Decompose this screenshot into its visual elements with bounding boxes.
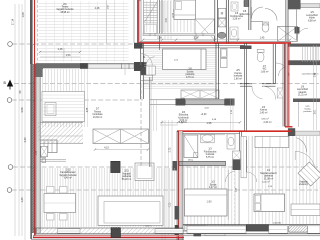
door arc 1/8 bbox=[252, 7, 264, 19]
svg-text:31,08 m²: 31,08 m² bbox=[264, 177, 274, 180]
hall wall 1/1 west bbox=[246, 140, 248, 172]
red boundary line top vertical bbox=[137, 0, 139, 44]
window gap southwest 2 bbox=[155, 229, 183, 234]
svg-text:fagyálló burkolat: fagyálló burkolat bbox=[60, 174, 77, 177]
south band room 1/2 bbox=[183, 225, 246, 230]
red boundary line west upper bbox=[34, 0, 36, 70]
southwest hatched band bbox=[36, 228, 183, 234]
svg-text:Előszoba: Előszoba bbox=[179, 115, 189, 117]
red hatched wall x178 bbox=[176, 131, 178, 240]
windows below band 1/2 bbox=[205, 231, 225, 236]
terrace dim line bbox=[40, 51, 80, 53]
small box with X bbox=[41, 146, 48, 157]
terrace step edge lines bbox=[40, 158, 66, 160]
dimension chain lines left margin bbox=[14, 4, 16, 236]
red elbow y127 bbox=[285, 126, 293, 128]
wall block 1/7 north bbox=[240, 46, 252, 50]
dim chain above red y131 bbox=[160, 121, 240, 123]
svg-text:Kamra: Kamra bbox=[260, 109, 267, 112]
entry wall line right bbox=[296, 10, 298, 41]
dim chain above red bbox=[143, 39, 290, 41]
west wall 2/8 bbox=[140, 43, 142, 99]
axis marker circle node 2 bbox=[7, 98, 12, 103]
svg-text:3,46: 3,46 bbox=[315, 72, 317, 77]
wall pillar mid bbox=[80, 63, 88, 69]
fridge bbox=[221, 49, 228, 58]
terrace faint lines right bbox=[106, 0, 108, 44]
corridor wall y84 bbox=[240, 83, 252, 85]
dim line 4,10 bbox=[95, 149, 148, 151]
sofa bbox=[98, 196, 163, 226]
insulated band below bath bbox=[179, 161, 226, 165]
svg-text:2/13: 2/13 bbox=[66, 170, 71, 172]
dim line pair hall east bbox=[230, 98, 232, 131]
wall 1/6-1/8 bbox=[248, 0, 250, 30]
svg-text:28,95 m²: 28,95 m² bbox=[60, 11, 69, 14]
north-east light band bbox=[301, 4, 320, 8]
chair bottom 1 bbox=[47, 214, 55, 221]
wall 1/7 east bbox=[272, 44, 274, 84]
bed room 2/8 bbox=[163, 49, 207, 70]
party wall lines top bbox=[133, 0, 135, 43]
axis marker circle node 1 bbox=[8, 42, 13, 47]
svg-text:4,28: 4,28 bbox=[95, 7, 100, 10]
svg-text:2,48: 2,48 bbox=[58, 48, 63, 51]
section marker B triangle bbox=[7, 80, 13, 87]
staircase treads bbox=[144, 2, 158, 4]
svg-text:Nappali: Nappali bbox=[300, 182, 308, 184]
pillar left of closet bbox=[176, 99, 186, 106]
wall 1/5-1/6 bbox=[225, 0, 227, 44]
steps outline bbox=[41, 140, 58, 153]
corner pillar at stair bbox=[134, 43, 143, 49]
toilet 1/3 bbox=[227, 134, 235, 149]
svg-text:2,98: 2,98 bbox=[207, 122, 212, 125]
wall edge below red bbox=[140, 44, 245, 46]
svg-text:31,31 m²: 31,31 m² bbox=[298, 94, 307, 97]
svg-text:1,45: 1,45 bbox=[260, 37, 265, 40]
bed room 2/10 bbox=[174, 0, 196, 20]
stairwell mid dark band bbox=[293, 99, 320, 103]
shaft with X corridor bbox=[277, 88, 283, 98]
svg-text:parketta: parketta bbox=[304, 110, 313, 113]
window sill southeast 1 bbox=[187, 226, 246, 233]
svg-text:1,60 m: 1,60 m bbox=[145, 226, 152, 228]
window marks on band bbox=[121, 64, 123, 70]
south wall edge lines bbox=[31, 238, 184, 240]
cabinet bbox=[221, 59, 228, 68]
room 2/8 parquet bbox=[144, 49, 216, 90]
stairwell treads right bbox=[302, 47, 304, 62]
svg-text:1,66 m²: 1,66 m² bbox=[261, 70, 269, 73]
east wall 2/8 bbox=[215, 43, 217, 99]
hatched block southeast bbox=[289, 226, 308, 232]
west wall brick band bbox=[30, 64, 32, 239]
window southeast 2 bbox=[269, 226, 288, 234]
dimension ticks bbox=[33, 43, 35, 45]
svg-text:3,28 m²: 3,28 m² bbox=[232, 18, 240, 21]
axis line y44 dashed bbox=[12, 43, 134, 45]
terrace 2/7 decking bbox=[42, 69, 89, 127]
terrace east edge bbox=[148, 77, 150, 167]
svg-text:2/A: 2/A bbox=[63, 3, 67, 6]
dim strip x160-175 vertical bbox=[161, 120, 163, 240]
svg-text:WC: WC bbox=[263, 69, 267, 71]
lounge rotated bbox=[298, 162, 320, 186]
west wall upper parapet bbox=[30, 0, 33, 64]
bath fixtures bbox=[230, 27, 238, 39]
fireplace kandallo bbox=[111, 161, 120, 172]
wall edge above red bbox=[140, 40, 291, 42]
closet with X bbox=[181, 90, 219, 99]
terrace 2/A decking bbox=[39, 1, 129, 62]
bath east wall bbox=[239, 131, 241, 165]
door arc 1/8 second bbox=[265, 9, 277, 21]
toilet 1/7 bbox=[257, 52, 264, 62]
shower 1/3 bbox=[184, 135, 198, 158]
terrace south steps area bbox=[40, 157, 46, 159]
axis line y190 dashed bbox=[12, 189, 318, 191]
red boundary horizontal y43 bbox=[139, 42, 292, 44]
wall corner block bbox=[36, 64, 44, 77]
sink 1/3 bbox=[201, 134, 214, 143]
axis line y82 dashed bbox=[14, 82, 319, 84]
svg-text:Előszoba: Előszoba bbox=[240, 13, 251, 16]
svg-text:1,08: 1,08 bbox=[21, 12, 25, 18]
svg-text:17,14: 17,14 bbox=[11, 18, 15, 25]
chimney block south bbox=[111, 228, 121, 238]
chair bottom 2 bbox=[60, 214, 68, 221]
pillar right of hall wall bbox=[225, 99, 235, 106]
svg-text:4,10: 4,10 bbox=[104, 147, 109, 150]
door arc mid right bbox=[279, 67, 289, 77]
svg-text:5,75 m²: 5,75 m² bbox=[206, 156, 214, 159]
door arc 1/1 big bbox=[295, 151, 315, 171]
wall pillar right bbox=[134, 62, 147, 71]
wardrobe lines 1/2 east bbox=[227, 170, 229, 220]
svg-text:2,61: 2,61 bbox=[315, 109, 317, 114]
svg-text:szekrény: szekrény bbox=[299, 183, 309, 186]
dryer with X bbox=[218, 18, 226, 27]
svg-text:6,40 m²: 6,40 m² bbox=[262, 181, 270, 184]
door arc stair to terrace bbox=[146, 57, 155, 66]
chair top 1 bbox=[47, 187, 55, 194]
pergola outline bbox=[42, 92, 85, 122]
bed 1/1 bbox=[254, 194, 285, 212]
dim lines strip x164-172 bbox=[164, 0, 166, 40]
svg-text:13,94 m²: 13,94 m² bbox=[93, 116, 103, 119]
stairwell wall line bbox=[298, 102, 300, 127]
dark block on wall 2/8 bbox=[141, 68, 148, 76]
svg-text:2,73: 2,73 bbox=[169, 147, 172, 152]
svg-text:Terasz: Terasz bbox=[62, 6, 70, 9]
room 1/2 parquet bbox=[184, 166, 240, 225]
svg-text:2,08: 2,08 bbox=[157, 37, 162, 40]
kandallo terrace hatch bbox=[38, 123, 83, 144]
svg-text:fagyálló burkolat: fagyálló burkolat bbox=[57, 8, 74, 11]
dim lines right margin bbox=[313, 45, 315, 130]
svg-text:2,36: 2,36 bbox=[194, 37, 199, 40]
axis marker circle node 4 bbox=[7, 188, 12, 193]
dashed line x37.5 bbox=[37, 0, 39, 63]
svg-text:Kandallóterasz: Kandallóterasz bbox=[60, 171, 76, 174]
hall fixture box bbox=[241, 159, 247, 166]
sideboard bottom right bbox=[291, 204, 320, 216]
window southeast 3 bbox=[308, 226, 320, 234]
svg-text:2,40 m²: 2,40 m² bbox=[263, 121, 271, 124]
wall band light right bbox=[88, 64, 134, 68]
wall lines below red y131 bbox=[179, 133, 240, 135]
pergola X-braced bbox=[93, 129, 149, 144]
bed 1/2 bbox=[185, 189, 228, 216]
wall pillar on party wall bbox=[175, 206, 180, 220]
red boundary horizontal y131 bbox=[177, 130, 292, 132]
svg-text:klíma: klíma bbox=[188, 159, 194, 161]
dashed boundary x141 bbox=[140, 84, 142, 167]
dining table bbox=[44, 194, 76, 213]
window mullion marks bbox=[183, 231, 246, 233]
svg-text:takarító: takarító bbox=[299, 91, 307, 94]
hall wall lines bbox=[150, 99, 176, 101]
washing machine M bbox=[218, 8, 226, 18]
svg-text:közlekedő: közlekedő bbox=[178, 117, 189, 119]
facade lines bottom edge bbox=[183, 233, 320, 235]
kitchen counter bbox=[255, 136, 289, 147]
axis marker circle node 3 bbox=[8, 165, 13, 170]
dark band stairwell south bbox=[286, 60, 320, 65]
stairwell pillar above red bbox=[295, 27, 300, 34]
room 2/11 parquet bbox=[41, 168, 177, 228]
svg-text:1,66 m²: 1,66 m² bbox=[234, 77, 242, 80]
facade line southeast bbox=[183, 224, 320, 226]
svg-text:1,25: 1,25 bbox=[20, 197, 24, 203]
north wall of 2/8 light band bbox=[143, 34, 215, 36]
red hatched wall x283 bbox=[284, 44, 286, 127]
east wall of 2/10 bbox=[214, 0, 216, 44]
north-east dark wall band bbox=[288, 0, 301, 9]
shower with X bbox=[278, 26, 298, 41]
pillar dark 1/2 corner bbox=[233, 160, 241, 171]
door arc hall to 1/1 bbox=[247, 172, 257, 182]
axis line y167 dashed bbox=[13, 166, 318, 168]
stair landing bbox=[145, 25, 157, 34]
svg-text:+0,00: +0,00 bbox=[201, 114, 208, 116]
shaft block dark bbox=[244, 1, 249, 7]
pillar below red elbow bbox=[288, 128, 295, 136]
door arc entry 1/9 bbox=[297, 28, 308, 39]
door arc corridor 1 bbox=[252, 86, 263, 99]
dark block left of band bbox=[173, 161, 178, 171]
wall x286 vertical bbox=[282, 44, 284, 127]
svg-text:3,56: 3,56 bbox=[20, 107, 24, 113]
svg-text:9,79 m²: 9,79 m² bbox=[186, 76, 194, 79]
door arc 2/8 bbox=[141, 54, 152, 66]
svg-text:8,40 m²: 8,40 m² bbox=[64, 177, 72, 180]
toilet 1/8 bbox=[262, 23, 269, 32]
shoe cabinet under stair bbox=[146, 66, 155, 75]
wardrobe with X room 2/10 bbox=[195, 19, 215, 40]
square table bbox=[135, 163, 154, 181]
svg-text:6,08 m²: 6,08 m² bbox=[308, 19, 316, 22]
shaft box with X 1/2 bbox=[233, 151, 241, 160]
svg-text:4,17 m²: 4,17 m² bbox=[209, 186, 217, 189]
svg-text:4,40: 4,40 bbox=[23, 137, 27, 143]
door arc 1/1 entry bbox=[297, 138, 307, 153]
door arc 1/7 bbox=[276, 63, 289, 76]
window gap southwest 1 bbox=[58, 229, 81, 234]
svg-text:4,85: 4,85 bbox=[87, 107, 89, 112]
dark band right of red bbox=[289, 44, 320, 47]
chair top 2 bbox=[60, 187, 68, 194]
room 1/1 parquet bbox=[246, 136, 320, 224]
door arc 1/2 bbox=[225, 171, 234, 182]
wall 2/5 east bbox=[243, 43, 245, 131]
south band dark segment bbox=[222, 225, 230, 230]
laundry sink dark bbox=[218, 32, 226, 38]
room 2/10 floor bbox=[144, 1, 194, 32]
svg-text:140/240: 140/240 bbox=[273, 223, 282, 225]
door arc corridor 2 bbox=[263, 86, 276, 99]
spandrel dark bbox=[246, 225, 268, 232]
stairwell wall lines bbox=[159, 0, 161, 50]
svg-text:1,53: 1,53 bbox=[66, 54, 71, 57]
wall 1/8 east bbox=[285, 0, 287, 41]
svg-text:1,80: 1,80 bbox=[206, 200, 212, 204]
south wall corner block bbox=[175, 225, 179, 235]
kitchen cabinet strip bbox=[241, 136, 246, 178]
east light band y131 bbox=[295, 131, 320, 135]
insulated wall band below closet bbox=[185, 100, 224, 105]
svg-text:2,40 m²: 2,40 m² bbox=[260, 111, 268, 114]
svg-text:M: M bbox=[221, 12, 224, 16]
svg-text:56,22 m²: 56,22 m² bbox=[122, 178, 132, 181]
red boundary line south bbox=[33, 235, 184, 237]
axis line y100 dashed bbox=[12, 99, 143, 101]
svg-text:Lépcsőház: Lépcsőház bbox=[297, 89, 309, 91]
pergola boxes bbox=[45, 103, 56, 116]
wall band dark left bbox=[36, 64, 89, 69]
